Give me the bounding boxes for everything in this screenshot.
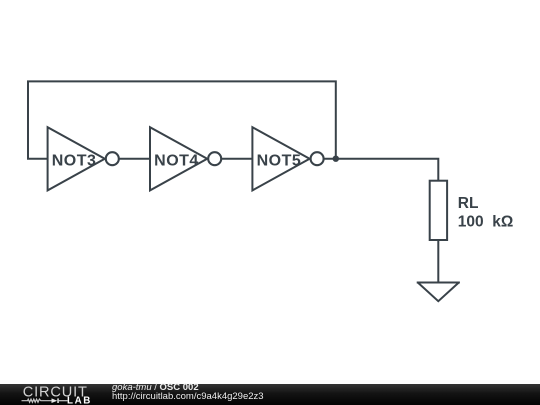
svg-text:LAB: LAB [67,395,92,405]
svg-text:100 kΩ: 100 kΩ [458,214,514,231]
svg-text:NOT4: NOT4 [154,152,199,169]
svg-text:RL: RL [458,195,479,212]
svg-text:NOT5: NOT5 [257,152,302,169]
svg-text:NOT3: NOT3 [52,152,97,169]
